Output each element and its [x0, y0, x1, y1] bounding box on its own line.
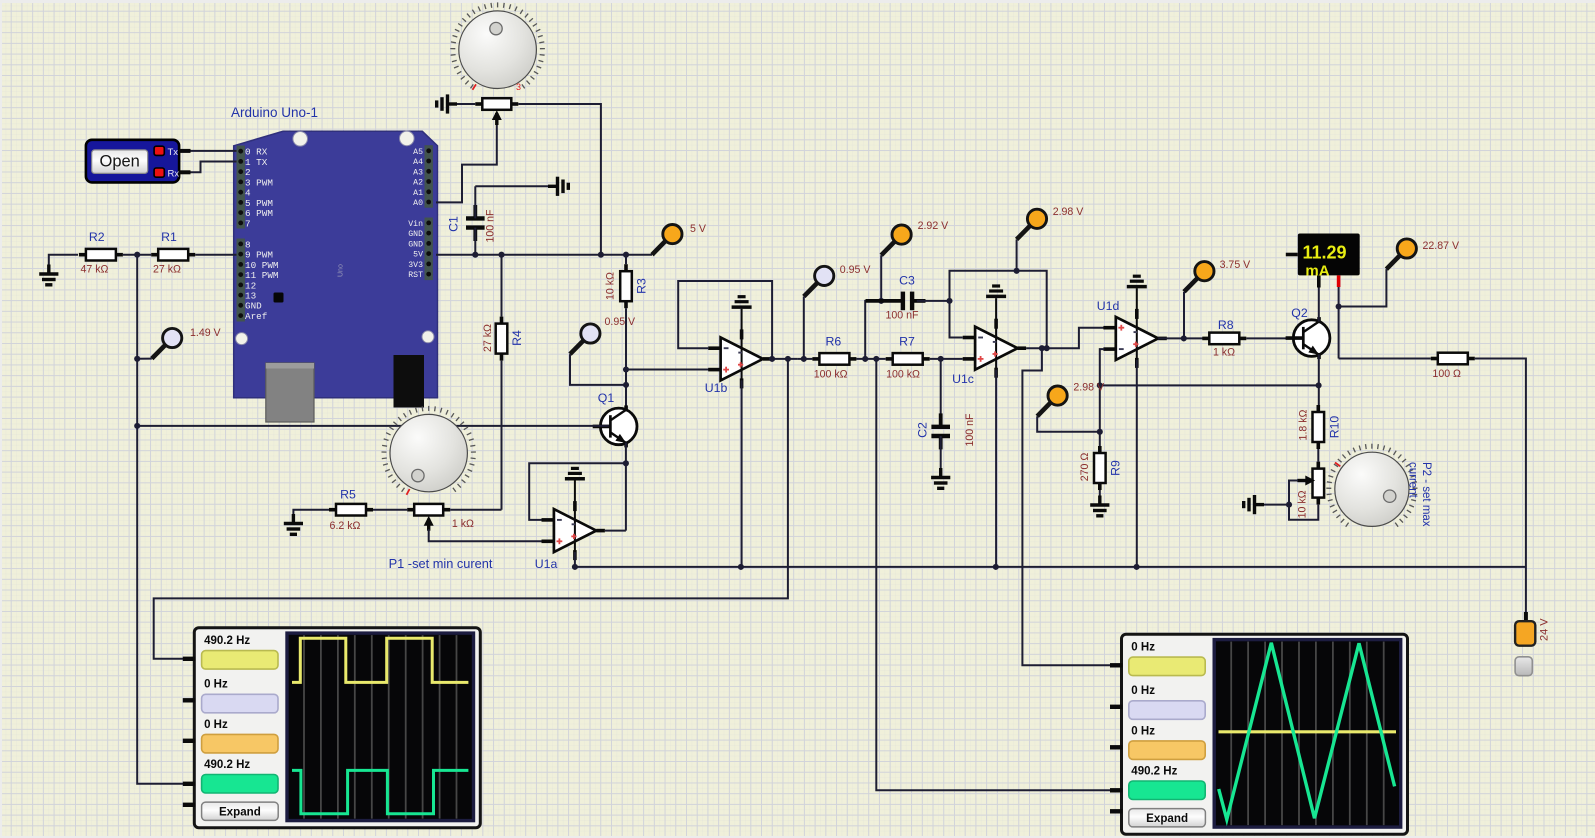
svg-text:2.98 V: 2.98 V	[1053, 206, 1085, 218]
wire R2-R1	[123, 254, 151, 256]
op-amp U1c	[963, 286, 1026, 378]
node wiper tie	[1286, 502, 1292, 508]
probe 2.98V	[1037, 386, 1067, 416]
svg-text:7: 7	[245, 218, 251, 229]
wire U1c output row	[1026, 328, 1104, 349]
wire Q2 emitter down	[1318, 355, 1320, 413]
Arduino chip	[274, 293, 284, 303]
svg-text:0 Hz: 0 Hz	[1131, 685, 1155, 697]
node output	[1044, 345, 1050, 351]
wire U1b power to rail	[741, 380, 743, 567]
svg-text:24 V: 24 V	[1539, 618, 1551, 641]
svg-text:270 Ω: 270 Ω	[1079, 453, 1091, 482]
capacitor C1	[466, 186, 485, 254]
probe 0.95V	[570, 324, 600, 354]
node meter probe tap	[1336, 303, 1342, 309]
probe 2.98V	[1017, 209, 1047, 239]
ground	[437, 94, 457, 113]
wire 5V to R4	[501, 255, 503, 317]
svg-text:Tx: Tx	[168, 147, 179, 158]
wire R5 to P1	[373, 509, 407, 511]
P2 - set max current label	[1407, 462, 1433, 527]
wire tie to P2 bottom	[1289, 505, 1318, 520]
probe 2.92V	[881, 225, 911, 255]
node R4-5V	[498, 252, 504, 258]
node C3 feedback	[946, 298, 952, 304]
node probe tap	[801, 356, 807, 362]
svg-text:47 kΩ: 47 kΩ	[81, 264, 109, 276]
node C3 probe tap	[878, 298, 884, 304]
svg-text:22.87 V: 22.87 V	[1423, 240, 1460, 252]
svg-text:C1: C1	[447, 216, 461, 232]
battery 24V positive terminal	[1515, 612, 1535, 646]
probe 0.95V	[804, 266, 834, 296]
Arduino power jack	[394, 355, 425, 408]
svg-text:U1c: U1c	[952, 372, 974, 386]
svg-text:A4: A4	[413, 158, 423, 167]
svg-text:100 nF: 100 nF	[886, 310, 920, 322]
svg-text:Q2: Q2	[1291, 306, 1308, 320]
wire U1a power to rail	[574, 552, 576, 567]
resistor R7	[886, 353, 930, 365]
svg-text:1 kΩ: 1 kΩ	[1213, 347, 1235, 359]
node C2 branch	[938, 356, 944, 362]
wire probe to R9 top	[1037, 416, 1100, 432]
wire U1d power to rail	[1136, 360, 1138, 567]
svg-text:10 kΩ: 10 kΩ	[605, 272, 617, 300]
battery negative terminal	[1515, 657, 1532, 676]
svg-text:27 kΩ: 27 kΩ	[482, 324, 494, 352]
Arduino pin headers	[238, 147, 431, 322]
probe 1.49V	[152, 328, 182, 358]
wire op-amp power rail	[575, 566, 1526, 568]
svg-text:1.49 V: 1.49 V	[190, 327, 222, 339]
svg-text:Expand: Expand	[1146, 812, 1188, 825]
node probe tap	[623, 382, 629, 388]
wire U1c power to rail	[995, 370, 997, 567]
node U1c rail	[993, 564, 999, 570]
svg-text:0.95 V: 0.95 V	[840, 264, 872, 276]
resistor R2	[79, 249, 123, 261]
svg-text:mA: mA	[1305, 263, 1329, 280]
svg-text:Aref: Aref	[245, 311, 267, 322]
wire Rx to pin 1 TX	[191, 162, 237, 173]
wire U1b out to scope A	[154, 359, 788, 659]
ground	[284, 510, 330, 535]
node probe tap	[134, 356, 140, 362]
svg-text:U1b: U1b	[705, 381, 728, 395]
svg-text:3: 3	[516, 82, 521, 92]
svg-text:R5: R5	[340, 488, 356, 502]
node divider	[134, 252, 140, 258]
ground	[1244, 495, 1264, 514]
resistor R10	[1313, 405, 1325, 449]
svg-text:R1: R1	[161, 230, 177, 244]
node probe tap	[1097, 429, 1103, 435]
svg-text:U1a: U1a	[535, 557, 558, 571]
potentiometer P1	[407, 504, 450, 531]
svg-text:Arduino Uno-1: Arduino Uno-1	[231, 105, 318, 120]
svg-text:C3: C3	[899, 274, 915, 288]
svg-text:2.92 V: 2.92 V	[918, 220, 950, 232]
node U1a rail	[572, 564, 578, 570]
wire P3 wiper to A0	[436, 125, 497, 202]
svg-text:R3: R3	[635, 278, 649, 294]
transistor Q2	[1286, 317, 1330, 359]
wire to right scope D	[876, 359, 1110, 790]
ground	[931, 468, 950, 488]
Arduino Uno-1 board	[234, 131, 438, 398]
probe 22.87V	[1386, 239, 1416, 269]
potentiometer P3	[475, 98, 518, 125]
resistor R4	[496, 317, 508, 361]
resistor R5	[329, 504, 373, 516]
svg-text:R9: R9	[1108, 460, 1122, 476]
node U1d rail	[1134, 564, 1140, 570]
svg-text:A2: A2	[413, 179, 423, 188]
wire base row	[137, 425, 609, 427]
oscilloscope right	[1110, 634, 1408, 834]
wire U1c out to right scope A	[1022, 348, 1110, 665]
ammeter 11.29 mA	[1286, 234, 1360, 288]
svg-text:5 V: 5 V	[690, 223, 707, 235]
wire pot P3 left to ground	[457, 103, 475, 105]
probe 5V	[652, 225, 682, 255]
wire meter red terminal down	[1338, 287, 1340, 359]
wire U1a feedback	[529, 463, 626, 520]
svg-text:100 Ω: 100 Ω	[1432, 368, 1461, 380]
wire 100 ohm to 24V	[1475, 359, 1526, 613]
wire U1a output	[605, 530, 626, 532]
node probe tap	[1014, 268, 1020, 274]
svg-text:R7: R7	[899, 335, 915, 349]
op-amp U1b	[708, 297, 771, 389]
wire C3 left branch	[865, 301, 898, 359]
resistor R8	[1202, 333, 1246, 345]
svg-text:100 nF: 100 nF	[485, 209, 497, 243]
wire probe stick to node	[137, 358, 152, 360]
potentiometer P2	[1297, 462, 1324, 505]
capacitor C2	[931, 359, 950, 468]
node U1b output	[769, 356, 775, 362]
svg-text:R2: R2	[89, 230, 105, 244]
svg-text:1 kΩ: 1 kΩ	[452, 518, 474, 530]
wire P1 right up to base row	[450, 509, 501, 511]
node emitter sense	[1097, 382, 1103, 388]
wire to U1b plus	[626, 369, 709, 371]
svg-text:27 kΩ: 27 kΩ	[153, 264, 181, 276]
ground	[1090, 490, 1109, 516]
wire probe to C3	[880, 255, 882, 301]
wire R3 to Q1 collector	[625, 308, 627, 410]
wire Q1 emitter down	[625, 443, 627, 531]
wire divider node down	[137, 255, 183, 784]
resistor R1	[151, 249, 195, 261]
wire U1d minus down	[1100, 349, 1104, 454]
wire sense row to Q2 emitter	[1100, 384, 1319, 386]
wire to R6	[797, 358, 812, 360]
svg-text:11.29: 11.29	[1302, 243, 1346, 263]
svg-text:6.2 kΩ: 6.2 kΩ	[330, 520, 361, 532]
wire Tx to pin 0 RX	[191, 150, 237, 152]
wire U1d output	[1158, 337, 1203, 339]
svg-text:5V: 5V	[413, 251, 423, 260]
svg-text:0 Hz: 0 Hz	[1131, 725, 1155, 737]
node probe tap	[1181, 335, 1187, 341]
wire pot P3 right to 5V	[518, 104, 601, 255]
wire 5V rail	[436, 254, 652, 256]
wire probe drop	[1183, 292, 1185, 339]
resistor 100 ohm	[1431, 353, 1475, 365]
probe 3.75V	[1184, 262, 1214, 292]
svg-text:A1: A1	[413, 189, 423, 198]
svg-text:2.98 V: 2.98 V	[1073, 381, 1105, 393]
capacitor C3	[866, 292, 926, 311]
wire ground to P2 wiper	[1264, 481, 1298, 505]
node emitter	[1316, 382, 1322, 388]
node scope branch	[1039, 345, 1045, 351]
op-amp U1d	[1103, 276, 1166, 368]
wire R4 to base row and P1	[501, 361, 503, 510]
svg-text:RST: RST	[408, 271, 423, 280]
svg-text:0 Hz: 0 Hz	[204, 679, 228, 691]
resistor R9	[1094, 446, 1106, 490]
svg-text:490.2 Hz: 490.2 Hz	[204, 635, 250, 647]
resistor R3	[620, 264, 632, 308]
svg-text:10 kΩ: 10 kΩ	[1297, 490, 1309, 518]
svg-text:3V3: 3V3	[408, 261, 423, 270]
svg-text:P2 - set max: P2 - set max	[1420, 462, 1432, 527]
wire Q2 collector to meter	[1318, 288, 1320, 322]
wire R10 to P2	[1317, 449, 1319, 462]
svg-text:R10: R10	[1327, 416, 1341, 439]
svg-text:490.2 Hz: 490.2 Hz	[204, 759, 250, 771]
resistor R6	[812, 353, 856, 365]
svg-text:A3: A3	[413, 168, 423, 177]
svg-text:C2: C2	[916, 422, 930, 438]
wire U1b output row	[772, 358, 798, 360]
node scopeD branch	[873, 356, 879, 362]
knob P3	[450, 2, 545, 89]
svg-text:100 kΩ: 100 kΩ	[886, 369, 920, 381]
wire meter to 100 ohm	[1339, 358, 1431, 360]
svg-text:3.75 V: 3.75 V	[1220, 259, 1252, 271]
node C3 branch	[862, 356, 868, 362]
node U1b+ tap	[623, 366, 629, 372]
node U1b rail	[738, 564, 744, 570]
wire probe to meter terminal	[1339, 269, 1387, 306]
wire C3 right to U1c box	[917, 300, 950, 302]
svg-text:Open: Open	[100, 153, 140, 171]
oscilloscope left	[183, 628, 481, 828]
node emitter feedback	[623, 460, 629, 466]
knob P1	[382, 406, 476, 495]
svg-text:P1 -set min curent: P1 -set min curent	[389, 556, 493, 571]
svg-text:0 Hz: 0 Hz	[1131, 642, 1155, 654]
svg-text:Expand: Expand	[219, 805, 261, 818]
wire U1b feedback box	[678, 281, 772, 359]
ground	[39, 255, 78, 285]
node R3-5V	[623, 252, 629, 258]
svg-text:current: current	[1407, 462, 1419, 499]
svg-text:100 kΩ: 100 kΩ	[814, 369, 848, 381]
svg-text:A5: A5	[413, 148, 423, 157]
op-amp U1a	[542, 468, 605, 560]
wire probe drop	[1016, 239, 1018, 270]
svg-text:Rx: Rx	[168, 169, 180, 180]
node scope branch	[785, 356, 791, 362]
node pot-5V	[598, 252, 604, 258]
svg-text:0 Hz: 0 Hz	[204, 719, 228, 731]
svg-text:100 nF: 100 nF	[964, 413, 976, 447]
svg-text:R6: R6	[826, 335, 842, 349]
knob P2	[1326, 444, 1417, 527]
wire R8 to Q2 base	[1246, 337, 1301, 339]
svg-text:490.2 Hz: 490.2 Hz	[1131, 766, 1177, 778]
svg-text:GND: GND	[408, 240, 423, 249]
wire R1 to pin 9 PWM	[195, 254, 236, 256]
svg-text:1.8 kΩ: 1.8 kΩ	[1297, 409, 1309, 440]
node C1-5V	[472, 252, 478, 258]
svg-text:GND: GND	[408, 230, 423, 239]
wire R6-R7	[856, 358, 885, 360]
svg-text:U1d: U1d	[1097, 299, 1120, 313]
svg-text:Uno: Uno	[338, 264, 345, 277]
wire C1 top to ground	[475, 185, 548, 187]
svg-text:A0: A0	[413, 199, 423, 208]
wire P1 wiper to U1a plus	[429, 529, 542, 541]
wire 5V to R3	[625, 255, 627, 265]
wire R7 to U1c plus	[930, 358, 963, 360]
wire U1c feedback box	[950, 271, 1047, 348]
svg-text:R4: R4	[510, 330, 524, 346]
wire probe drop	[803, 297, 805, 359]
svg-text:R8: R8	[1218, 318, 1234, 332]
serial Open button with Tx Rx LEDs	[86, 140, 191, 183]
svg-text:Q1: Q1	[598, 391, 615, 405]
ground	[548, 177, 568, 196]
Arduino USB connector	[266, 363, 314, 422]
node base row	[134, 423, 140, 429]
svg-text:Vin: Vin	[408, 219, 423, 229]
svg-text:0.95 V: 0.95 V	[605, 316, 637, 328]
wire probe to collector	[570, 354, 626, 385]
transistor Q1	[593, 405, 637, 447]
